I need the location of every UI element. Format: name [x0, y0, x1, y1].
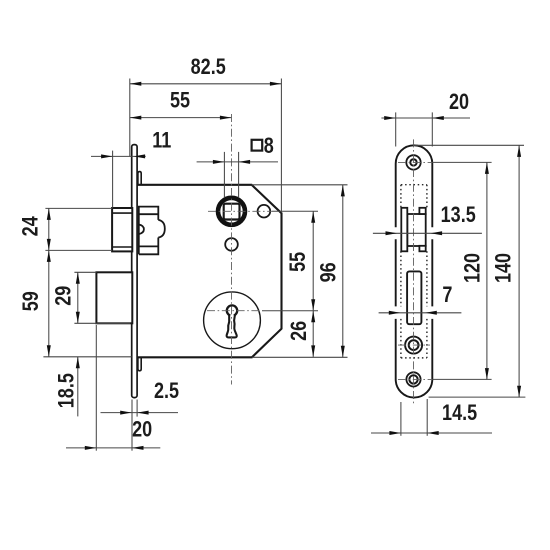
- dim 120 down arrow: [485, 368, 489, 380]
- extension line bottom screw center: [432, 378, 492, 380]
- svg-text:7: 7: [442, 283, 452, 307]
- extension line keyhole center to 26 dim: [262, 310, 318, 312]
- centerline horizontal through spindle: [208, 210, 272, 212]
- dim 20 top left arrow: [384, 116, 396, 120]
- dim square-8 left arrow: [213, 160, 225, 164]
- keyhole: [227, 305, 238, 337]
- extension line latch bottom left: [45, 249, 112, 251]
- svg-text:26: 26: [288, 321, 312, 341]
- latch mechanism inside case: [139, 207, 165, 255]
- svg-text:11: 11: [152, 129, 171, 153]
- extension line faceplate left lower: [131, 400, 133, 451]
- extension line spindle center to 55 dim: [272, 210, 318, 212]
- centerline middle hole horizontal: [398, 344, 430, 346]
- extension line latch tip: [112, 151, 114, 208]
- svg-text:55: 55: [286, 252, 310, 272]
- dim 96 down arrow: [341, 346, 345, 358]
- dim 140 up arrow: [517, 145, 521, 157]
- centerline bottom screw horizontal: [398, 378, 432, 380]
- dim 18.5 up arrow: [76, 357, 80, 369]
- extension line latch top left: [45, 207, 112, 209]
- dim 120 up arrow: [485, 162, 489, 174]
- dim 26 up arrow: [311, 311, 315, 323]
- dimension 20 top line: [381, 117, 470, 119]
- extension line plate bottom right: [429, 396, 526, 398]
- dimension 82.5 line: [130, 83, 282, 85]
- svg-text:2.5: 2.5: [154, 379, 179, 403]
- svg-text:55: 55: [170, 89, 190, 113]
- extension line case top right: [252, 184, 348, 186]
- dimension 140 line: [518, 145, 520, 397]
- dimension 18.5 line: [77, 357, 79, 417]
- dim 29 down arrow: [76, 312, 80, 324]
- extension line square left: [223, 152, 225, 197]
- dim 59 down arrow: [47, 345, 51, 357]
- dimension 55 top line: [130, 117, 232, 119]
- spindle square hole 8mm: [224, 204, 240, 220]
- dim 55 left arrow: [130, 116, 142, 120]
- extension line deadbolt top: [74, 271, 96, 273]
- top screw hole: [406, 155, 420, 169]
- dimension 29 line: [77, 272, 79, 323]
- dim 24 down arrow: [47, 239, 51, 251]
- dimension 2.5 line: [101, 412, 179, 414]
- dim 20 bottom right arrow: [132, 446, 144, 450]
- dimension 13.5 line: [373, 232, 482, 234]
- svg-text:18.5: 18.5: [55, 373, 79, 408]
- centerline horizontal through keyhole: [207, 310, 262, 312]
- dimension 11 line: [91, 155, 146, 157]
- dim 20 top right arrow: [432, 116, 444, 120]
- dim 11 left arrow: [101, 154, 113, 158]
- extension line deadbolt bottom: [74, 322, 130, 324]
- dim 14.5 left arrow: [389, 431, 401, 435]
- latch front view top right tab: [419, 208, 425, 214]
- latch bevel line top: [112, 212, 132, 214]
- extension line square right: [238, 152, 240, 197]
- svg-text:24: 24: [19, 216, 43, 237]
- spindle hub ring: [218, 198, 245, 225]
- hidden lock case (dotted) bottom: [401, 357, 427, 359]
- svg-text:29: 29: [52, 286, 76, 306]
- dim 2.5 left arrow: [120, 411, 132, 415]
- dim 2.5 right arrow: [137, 411, 149, 415]
- svg-text:96: 96: [317, 262, 341, 282]
- fixing hole below spindle: [225, 238, 238, 251]
- dim square-8 right arrow: [239, 160, 251, 164]
- centerline vertical through spindle and keyhole: [230, 114, 232, 385]
- extension line right of 82.5: [280, 79, 282, 213]
- dim 55 right down arrow: [311, 299, 315, 311]
- svg-text:20: 20: [449, 91, 469, 115]
- dim 55 right arrow: [220, 116, 232, 120]
- dim 59 up arrow: [47, 250, 51, 262]
- extension line deadbolt tip lower: [95, 325, 97, 451]
- svg-text:14.5: 14.5: [442, 401, 477, 425]
- svg-text:20: 20: [132, 418, 152, 442]
- dimension 20 bottom line: [66, 447, 160, 449]
- extension line top screw center: [432, 161, 492, 163]
- dim 24 up arrow: [47, 208, 51, 220]
- lock case outline with chamfered corners: [137, 185, 282, 357]
- extension line plate left top: [395, 112, 397, 146]
- hidden lock case (dotted) top: [401, 184, 427, 186]
- dim 20 bottom left arrow: [85, 446, 97, 450]
- fixing hole right of spindle: [258, 205, 271, 218]
- dimension 24 line: [48, 208, 50, 250]
- dim 82.5 right arrow: [270, 82, 282, 86]
- svg-text:120: 120: [461, 253, 485, 283]
- faceplate (side view): [132, 145, 137, 398]
- dim 55 right up arrow: [311, 211, 315, 223]
- latch front view left flange: [401, 208, 407, 252]
- latch front view bottom right tab: [419, 246, 425, 252]
- dim 13.5 left arrow: [386, 231, 398, 235]
- dim 11 right arrow: [134, 154, 146, 158]
- cylinder circle around keyhole: [204, 292, 261, 349]
- svg-text:8: 8: [264, 134, 274, 158]
- svg-text:13.5: 13.5: [441, 204, 476, 228]
- dimension 14.5 line: [371, 432, 492, 434]
- dimension 55 right line: [312, 211, 314, 310]
- dimension 7 line: [379, 312, 462, 314]
- middle fixing hole: [405, 337, 422, 354]
- faceplate front view outline: [396, 145, 433, 397]
- svg-text:59: 59: [20, 291, 44, 311]
- extension line left of 82.5/55: [129, 79, 131, 157]
- extension line case bottom left: [43, 356, 131, 358]
- svg-text:140: 140: [492, 253, 516, 283]
- hidden lock case (dotted) right: [426, 185, 428, 358]
- dim 13.5 right arrow: [431, 231, 443, 235]
- hidden lock case (dotted) left: [400, 185, 402, 358]
- dim 7 right arrow: [425, 311, 437, 315]
- extension line plate top right: [414, 144, 525, 146]
- dimension 120 line: [486, 162, 488, 379]
- dimension square-8 line: [197, 161, 278, 163]
- centerline faceplate front: [413, 139, 415, 404]
- dim 7 left arrow: [389, 311, 401, 315]
- case top mounting tab: [138, 172, 141, 185]
- extension line case right lower: [426, 399, 428, 436]
- dim 14.5 right arrow: [427, 431, 439, 435]
- deadbolt slot: [407, 271, 421, 324]
- case bottom mounting tab: [138, 357, 141, 371]
- dim 140 down arrow: [517, 386, 521, 398]
- dim square-8 glyph: [252, 140, 263, 151]
- dim 29 up arrow: [76, 272, 80, 284]
- dimension 59 line: [48, 250, 50, 356]
- dimension 26 line: [312, 311, 314, 357]
- centerline top screw horizontal: [398, 161, 432, 163]
- dimension 96 line: [342, 185, 344, 357]
- dim 26 down arrow: [311, 345, 315, 357]
- deadbolt (side view): [96, 272, 132, 323]
- extension line case left lower: [400, 402, 402, 436]
- extension line faceplate right lower: [136, 400, 138, 417]
- latch bevel line bottom: [112, 246, 132, 248]
- dim 82.5 left arrow: [130, 82, 142, 86]
- extension line plate right top: [431, 112, 433, 146]
- latch front view main body: [407, 214, 425, 246]
- dim 96 up arrow: [341, 185, 345, 197]
- svg-text:82.5: 82.5: [191, 55, 226, 79]
- latch bolt head (side view): [112, 208, 132, 251]
- bottom screw hole: [406, 372, 420, 386]
- extension line case bottom right: [252, 356, 348, 358]
